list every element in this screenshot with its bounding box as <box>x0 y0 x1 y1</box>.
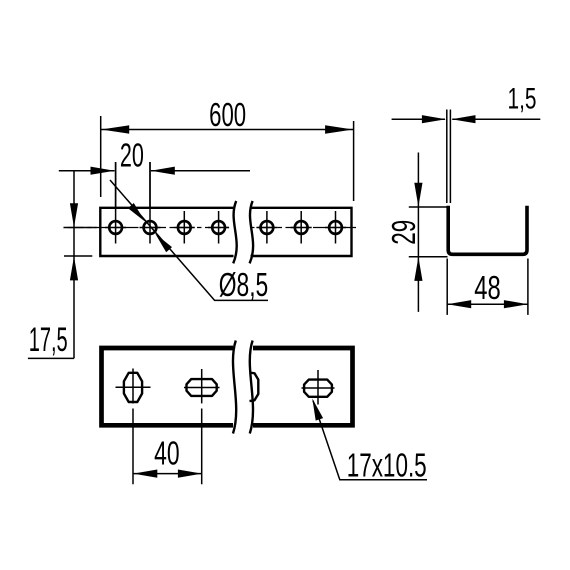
hole 3 <box>178 221 191 234</box>
centerline of top bar <box>64 227 233 229</box>
hole horizontal center marks <box>105 227 126 229</box>
dimension 17,5 line <box>73 171 75 359</box>
slot 3 horizontal center mark <box>302 387 335 389</box>
dimension 29 extension line bottom <box>409 256 448 258</box>
top view: bar outline left part <box>100 208 233 256</box>
hole 5 <box>261 221 274 234</box>
partial slot at break <box>250 373 259 402</box>
dimension 600 extension line right <box>353 121 355 201</box>
break line right S-curve (top view) <box>250 201 254 263</box>
dimension 17,5 down arrow <box>70 203 78 227</box>
diameter leader upper arrow <box>128 203 145 221</box>
bottom view: bar outline left part <box>102 348 234 425</box>
slot 1 (vertical) <box>124 373 142 402</box>
bottom view: bar outline right part <box>253 348 353 425</box>
svg-text:Ø8,5: Ø8,5 <box>219 266 269 303</box>
dimension 40 right arrow <box>178 470 202 478</box>
hole 1 center mark <box>115 162 117 244</box>
hole 6 <box>295 221 308 234</box>
break line left S-curve (bottom view) <box>233 341 236 434</box>
hole 3 center mark <box>183 211 185 244</box>
dimension 48 right arrow <box>504 300 528 308</box>
hole 5 center mark <box>266 211 268 244</box>
dimension 600 line <box>101 129 353 131</box>
svg-text:1,5: 1,5 <box>508 82 537 115</box>
diameter leader lower arrow <box>155 234 172 253</box>
break line left S-curve (top view) <box>233 201 237 263</box>
dimension 48 extension line left <box>446 259 448 315</box>
slot 2 horizontal center mark <box>184 387 220 389</box>
dimension 20 extension line right <box>149 162 151 207</box>
svg-text:17x10.5: 17x10.5 <box>347 447 427 484</box>
slot size leader arrow <box>312 399 323 421</box>
svg-text:48: 48 <box>474 269 501 306</box>
dimension 17,5 extension line bottom <box>64 255 92 257</box>
dimension 1,5 line left tail <box>392 118 445 120</box>
svg-text:29: 29 <box>385 220 422 245</box>
section view: U channel profile <box>448 206 527 255</box>
diameter leader line <box>110 180 268 300</box>
dimension 17,5 elbow <box>28 357 74 359</box>
dimension 600 left arrow <box>101 125 129 133</box>
dimension 17,5 up arrow <box>70 256 78 280</box>
dimension 20 extension line left <box>115 162 117 207</box>
slot 3 vertical center mark <box>317 370 319 405</box>
dimension 600 right arrow <box>325 125 353 133</box>
dimension 48 line <box>447 303 528 305</box>
slot 3 (horizontal) <box>304 380 332 397</box>
section view: wall thickness extension lines (double line) <box>447 110 451 204</box>
dimension 48 left arrow <box>447 300 471 308</box>
dimension 1,5 right arrow <box>452 115 476 123</box>
hole 2 <box>144 221 157 234</box>
dimension 20 left arrow <box>91 167 115 175</box>
svg-text:20: 20 <box>120 136 144 173</box>
hole 7 center mark <box>335 211 337 244</box>
dimension 29 down arrow <box>414 183 422 207</box>
dimension 20 right arrow <box>151 167 175 175</box>
dimension 40 left arrow <box>133 470 157 478</box>
dimension 29 up arrow <box>414 257 422 281</box>
dimension 17,5 extension line top (centerline level) <box>64 227 97 229</box>
dimension 1,5 left arrow <box>422 115 446 123</box>
hole 1 <box>109 221 122 234</box>
dimension 1,5 line right tail <box>452 118 540 120</box>
dimension 40 line <box>133 473 202 475</box>
svg-text:600: 600 <box>209 96 246 133</box>
slot 2 vertical center mark <box>201 369 203 484</box>
dimension 600 extension line left <box>100 116 102 197</box>
dimension 48 extension line right <box>527 259 529 315</box>
hole 4 <box>212 221 225 234</box>
dimension 29 line <box>417 153 419 312</box>
slot 2 (horizontal) <box>187 379 217 396</box>
hole 7 <box>329 221 342 234</box>
hole 4 center mark <box>218 211 220 244</box>
slot 1 vertical center mark <box>132 369 134 485</box>
dimension 29 extension line top <box>409 206 447 208</box>
svg-text:17,5: 17,5 <box>29 321 68 359</box>
top view: bar outline right part <box>251 208 352 256</box>
slot 1 horizontal center mark <box>116 386 151 388</box>
slot size leader line <box>313 401 427 480</box>
break line right S-curve (bottom view) <box>250 341 253 434</box>
hole 2 center mark <box>149 162 151 244</box>
hole 6 center mark <box>300 211 302 244</box>
svg-text:40: 40 <box>154 435 180 472</box>
dimension 20 line with tails <box>59 170 250 172</box>
